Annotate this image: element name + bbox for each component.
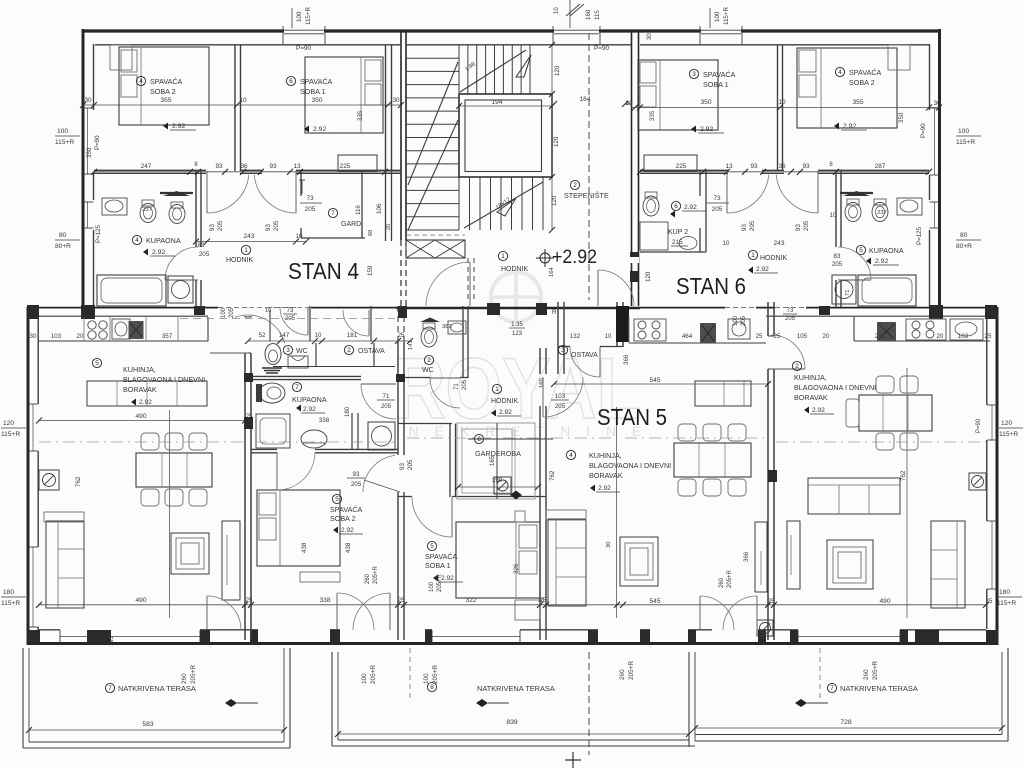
- kitchen counter STAN4: [39, 340, 208, 342]
- svg-text:5: 5: [335, 496, 339, 503]
- pillow k: [519, 525, 537, 548]
- svg-text:205+R: 205+R: [190, 665, 197, 684]
- dim row y105 left: [83, 104, 401, 106]
- svg-text:STEPENIŠTE: STEPENIŠTE: [564, 191, 609, 200]
- terrace left outer border: [22, 648, 24, 748]
- OSTAVA door arc: [368, 310, 370, 336]
- svg-text:115+R: 115+R: [1, 600, 20, 607]
- drain symbol left: [39, 470, 59, 490]
- OSTAVA2 label STAN4: [344, 345, 353, 354]
- svg-text:205: 205: [305, 206, 316, 213]
- svg-text:205+R: 205+R: [437, 573, 443, 592]
- svg-text:NATKRIVENA TERASA: NATKRIVENA TERASA: [477, 684, 555, 693]
- svg-text:243: 243: [773, 240, 784, 247]
- svg-text:147: 147: [279, 332, 290, 339]
- door arc kupaona4 mirror: [165, 247, 198, 280]
- svg-text:25: 25: [398, 333, 405, 339]
- svg-text:KUPAONA: KUPAONA: [869, 246, 904, 255]
- toilet KUP2: [643, 196, 659, 216]
- svg-text:237: 237: [142, 207, 152, 213]
- svg-text:13: 13: [293, 163, 301, 170]
- bed STAN5 SOBA2: [257, 490, 340, 566]
- svg-text:103: 103: [958, 333, 969, 340]
- svg-text:20: 20: [386, 224, 392, 230]
- door arc kupaona7: [361, 383, 396, 385]
- svg-text:KUPAONA: KUPAONA: [292, 395, 327, 404]
- svg-text:350: 350: [700, 99, 711, 106]
- svg-text:205: 205: [555, 403, 566, 410]
- section dash line across: [39, 441, 243, 443]
- watermark logo: [393, 272, 647, 439]
- svg-text:80: 80: [59, 232, 67, 239]
- svg-text:115+R: 115+R: [1, 431, 20, 438]
- svg-text:160: 160: [539, 378, 545, 388]
- bidet STAN6: [872, 203, 888, 222]
- stair bottom wall piers: [487, 303, 500, 315]
- svg-text:93: 93: [795, 224, 802, 231]
- svg-text:6: 6: [674, 203, 678, 210]
- bidet STAN4: [169, 205, 185, 224]
- dim row y171 STAN6: [640, 171, 929, 173]
- svg-text:115+R: 115+R: [997, 600, 1016, 607]
- kupaona4 label: [132, 235, 141, 244]
- hodnik5 bottom / garderoba top wall: [398, 423, 452, 425]
- svg-text:205: 205: [273, 220, 280, 231]
- svg-text:2.92: 2.92: [303, 406, 316, 413]
- coffee table STAN4: [171, 533, 209, 574]
- svg-text:205: 205: [803, 220, 810, 231]
- pillow f: [640, 86, 656, 107]
- terrace left label: [105, 683, 114, 692]
- svg-text:335: 335: [357, 110, 364, 121]
- shower head dark STAN4: [163, 191, 190, 196]
- svg-text:93: 93: [265, 224, 272, 231]
- door leaf stan6: [771, 368, 805, 370]
- sink STAN6: [950, 319, 983, 340]
- WC door arc: [307, 307, 309, 335]
- window right wall P=90 350: [934, 108, 936, 175]
- KUP2 labels: [671, 201, 680, 210]
- svg-text:SPAVAĆA: SPAVAĆA: [703, 70, 736, 79]
- door arc hodnik5: [542, 377, 544, 417]
- garderoba left wall: [449, 424, 451, 498]
- elevator shaft box: [459, 94, 552, 177]
- washing machine STAN6: [832, 275, 856, 304]
- svg-text:68: 68: [368, 230, 374, 236]
- pillow b: [121, 75, 137, 97]
- svg-text:5: 5: [430, 543, 434, 550]
- bottom exterior wall: [28, 642, 998, 645]
- section dash line mid: [407, 437, 615, 439]
- svg-text:HODNIK: HODNIK: [501, 266, 529, 273]
- svg-text:205+R: 205+R: [727, 569, 733, 588]
- window 120 right: [991, 405, 993, 440]
- hob STAN5: [634, 319, 666, 341]
- svg-text:438: 438: [301, 542, 308, 553]
- door arc bedroom2 STAN4: [206, 171, 208, 213]
- garderoba STAN4 walls: [300, 171, 302, 196]
- svg-text:7: 7: [830, 685, 834, 692]
- svg-text:73: 73: [787, 308, 794, 314]
- svg-text:180: 180: [999, 589, 1010, 596]
- WC3 sink: [288, 356, 308, 368]
- svg-text:132: 132: [570, 333, 581, 340]
- svg-text:SOBA 2: SOBA 2: [330, 514, 356, 523]
- section line vertical: [588, 652, 590, 755]
- top dim line left window: [291, 8, 293, 28]
- svg-text:7: 7: [108, 685, 112, 692]
- top wall inner line centre: [407, 44, 631, 46]
- zone line STAN6 living: [906, 368, 908, 618]
- svg-text:OSTAVA: OSTAVA: [358, 348, 385, 355]
- sofa armrest top stan5: [546, 510, 586, 520]
- svg-text:7: 7: [295, 384, 299, 391]
- svg-text:BLAGOVAONA I DNEVNI: BLAGOVAONA I DNEVNI: [123, 375, 205, 384]
- kuhinja STAN5 label: [566, 450, 575, 459]
- svg-text:225: 225: [676, 163, 687, 170]
- zone line STAN4 living: [169, 410, 171, 618]
- svg-text:25: 25: [398, 598, 405, 604]
- coffee table STAN5: [620, 537, 658, 586]
- svg-text:160: 160: [585, 9, 592, 20]
- svg-text:10: 10: [315, 333, 322, 339]
- kitchen wall inner line left: [28, 315, 208, 317]
- svg-text:P=125: P=125: [95, 224, 102, 243]
- svg-text:120: 120: [554, 65, 561, 76]
- svg-text:10: 10: [554, 7, 560, 14]
- sofa STAN5: [548, 519, 586, 606]
- svg-text:GARDEROBA: GARDEROBA: [475, 449, 521, 458]
- staircase treads left column: [406, 44, 459, 46]
- svg-text:30: 30: [647, 33, 653, 40]
- svg-text:338: 338: [319, 417, 330, 424]
- chairs STAN5: [678, 424, 696, 441]
- svg-text:205: 205: [217, 220, 224, 231]
- svg-text:193: 193: [109, 636, 115, 646]
- bed STAN6 SOBA2: [797, 48, 897, 128]
- svg-text:1,35: 1,35: [511, 322, 523, 328]
- svg-text:93: 93: [215, 163, 223, 170]
- svg-text:25: 25: [768, 599, 775, 605]
- right exterior wall lower band: [996, 307, 999, 645]
- terrace right bottom border: [695, 740, 1008, 742]
- label SOBA2 STAN6: [835, 67, 844, 76]
- dim row y341: [248, 340, 410, 342]
- svg-text:25: 25: [540, 598, 547, 604]
- dashed projection line: [409, 648, 411, 700]
- svg-text:25: 25: [986, 599, 993, 605]
- svg-text:2: 2: [795, 363, 799, 370]
- svg-text:215: 215: [672, 239, 683, 246]
- terrace middle left border: [331, 652, 333, 746]
- svg-text:13: 13: [725, 163, 733, 170]
- svg-text:SPAVAĆA: SPAVAĆA: [150, 77, 183, 86]
- +2.92 level mark: [540, 253, 550, 263]
- svg-text:71: 71: [383, 393, 390, 400]
- appliance dark STAN6: [877, 322, 896, 341]
- door arc soba1 top: [451, 497, 453, 537]
- svg-text:36: 36: [240, 163, 248, 170]
- svg-text:205: 205: [285, 316, 296, 322]
- svg-text:205: 205: [832, 261, 843, 268]
- svg-text:3: 3: [561, 347, 565, 354]
- svg-text:1: 1: [751, 252, 755, 259]
- svg-text:2.92: 2.92: [139, 399, 152, 406]
- nightstand STAN4 SOBA2: [110, 45, 132, 70]
- label SOBA1 STAN4: [286, 76, 295, 85]
- mid horizontal wall y307: [28, 307, 218, 309]
- svg-text:2: 2: [573, 182, 577, 189]
- svg-text:464: 464: [682, 333, 693, 340]
- door arc ostava3: [599, 347, 601, 377]
- svg-text:205+R: 205+R: [872, 661, 879, 680]
- svg-text:HODNIK: HODNIK: [226, 257, 254, 264]
- svg-text:2.92: 2.92: [313, 126, 326, 133]
- svg-text:120: 120: [551, 195, 558, 206]
- svg-text:20: 20: [937, 333, 944, 340]
- bed STAN4 SOBA2: [119, 47, 209, 125]
- svg-text:5: 5: [95, 360, 99, 367]
- svg-text:KUHINJA,: KUHINJA,: [794, 373, 827, 382]
- dashed door lintels mid wall: [218, 307, 249, 309]
- svg-text:1: 1: [244, 247, 248, 254]
- svg-text:SPAVAĆA: SPAVAĆA: [849, 68, 882, 77]
- svg-text:100: 100: [429, 581, 435, 592]
- svg-text:120: 120: [645, 271, 652, 282]
- nightstand STAN6 SOBA2: [888, 45, 910, 70]
- svg-text:100: 100: [714, 11, 721, 22]
- wall x401 mid: [397, 342, 399, 455]
- top wall inner line left: [95, 44, 400, 46]
- svg-text:100: 100: [296, 11, 303, 22]
- svg-text:4: 4: [139, 78, 143, 85]
- svg-text:338: 338: [319, 597, 330, 604]
- svg-text:180: 180: [345, 406, 351, 417]
- svg-text:2.92: 2.92: [172, 123, 185, 130]
- svg-text:103: 103: [555, 393, 566, 400]
- svg-text:73: 73: [713, 195, 721, 202]
- svg-text:159: 159: [367, 265, 374, 276]
- bed STAN6 SOBA1: [638, 60, 718, 130]
- coffee table STAN6: [827, 540, 873, 589]
- stepeniste label: [570, 180, 579, 189]
- svg-text:+2.92: +2.92: [552, 247, 597, 268]
- svg-text:30: 30: [392, 97, 400, 104]
- door arc soba1 stan5: [364, 480, 400, 492]
- door arcs to terraces: [336, 593, 338, 630]
- pillow d: [365, 84, 381, 105]
- svg-text:KUHINJA,: KUHINJA,: [123, 365, 156, 374]
- svg-text:120: 120: [1001, 420, 1012, 427]
- svg-text:205: 205: [462, 379, 468, 390]
- svg-text:25: 25: [246, 598, 253, 604]
- svg-text:839: 839: [506, 719, 518, 726]
- svg-text:762: 762: [75, 476, 82, 487]
- svg-text:1: 1: [495, 386, 499, 393]
- svg-text:10: 10: [830, 212, 837, 219]
- hodnik STAN4 label: [241, 245, 250, 254]
- bed STAN4 SOBA1: [305, 57, 383, 133]
- kuhinja STAN6 label: [792, 361, 801, 370]
- wall x620 stan5 ostava right: [616, 302, 618, 347]
- chairs STAN6: [876, 376, 894, 393]
- drain symbol stair bottom: [494, 477, 511, 494]
- door arc bedroom1 STAN6: [726, 171, 728, 213]
- dashed line below corridor: [180, 318, 395, 320]
- svg-text:KUPAONA: KUPAONA: [146, 236, 181, 245]
- svg-text:115+R: 115+R: [999, 431, 1018, 438]
- window 120 left: [32, 404, 34, 451]
- svg-text:260: 260: [619, 669, 626, 680]
- sofa STAN6: [808, 478, 900, 514]
- svg-text:205+R: 205+R: [370, 665, 377, 684]
- svg-text:P=90: P=90: [296, 45, 312, 52]
- svg-text:205: 205: [351, 481, 362, 488]
- WC3 toilet: [265, 344, 281, 365]
- kupaona5 label: [856, 245, 865, 254]
- staircase wall dashed below: [397, 306, 399, 342]
- svg-text:2.92: 2.92: [598, 485, 611, 492]
- terrace left right border: [283, 648, 285, 742]
- svg-text:P=90: P=90: [920, 123, 927, 138]
- wall STAN4 living / SOBA2 mid: [244, 316, 246, 640]
- KUP2 walls STAN6: [699, 171, 701, 196]
- dashed stub below niche: [467, 258, 469, 300]
- dining table STAN4: [136, 453, 212, 487]
- bathtub STAN4: [97, 275, 166, 306]
- svg-text:100: 100: [733, 315, 739, 326]
- svg-text:80+R: 80+R: [55, 243, 71, 250]
- black wall fill above ostava: [616, 306, 629, 342]
- terrace right right border: [1001, 652, 1003, 735]
- svg-text:2.92: 2.92: [152, 249, 165, 256]
- niche box with X under stairs: [406, 240, 465, 258]
- sideboard STAN4: [87, 381, 207, 406]
- label SOBA1 STAN5: [427, 541, 436, 550]
- kitchen counter STAN6: [854, 340, 990, 342]
- svg-text:73: 73: [306, 195, 314, 202]
- WC/OSTAVA walls: [309, 306, 311, 341]
- WC3 radiator fan: [262, 368, 282, 373]
- svg-text:350: 350: [898, 112, 905, 123]
- pillow g: [799, 50, 816, 72]
- svg-text:HODNIK: HODNIK: [760, 255, 788, 262]
- label SOBA2 STAN4: [136, 76, 145, 85]
- svg-text:100: 100: [361, 673, 368, 684]
- svg-text:4: 4: [135, 237, 139, 244]
- svg-text:93: 93: [741, 224, 748, 231]
- svg-text:105: 105: [797, 333, 808, 340]
- garderoba wardrobe outlines: [457, 423, 535, 499]
- svg-text:BORAVAK: BORAVAK: [589, 471, 623, 480]
- svg-text:STAN 6: STAN 6: [676, 273, 746, 299]
- svg-text:6: 6: [289, 78, 293, 85]
- svg-text:225: 225: [340, 163, 351, 170]
- dim row y107 right: [631, 107, 940, 109]
- svg-text:STAN 5: STAN 5: [597, 404, 667, 430]
- svg-text:2.92: 2.92: [812, 407, 825, 414]
- bedroom separating wall horizontal STAN6: [640, 169, 728, 171]
- window right wall P=125: [934, 202, 936, 228]
- svg-text:322: 322: [465, 597, 476, 604]
- terrace left bottom border: [23, 747, 290, 749]
- svg-text:762: 762: [900, 470, 907, 481]
- svg-text:SOBA 2: SOBA 2: [849, 78, 875, 87]
- svg-text:205: 205: [785, 316, 796, 322]
- kupaona7 washing machine: [368, 422, 395, 450]
- entry door arc STAN5 side: [597, 270, 599, 306]
- svg-text:728: 728: [840, 719, 852, 726]
- black pier wall stan5/6: [768, 470, 777, 482]
- TV cabinet STAN5: [755, 522, 767, 592]
- bottom wall piers: [28, 630, 40, 643]
- staircase left wall: [400, 31, 402, 240]
- svg-text:2: 2: [427, 357, 431, 364]
- nightstand SOBA1 STAN5 top: [515, 511, 525, 522]
- window 180 right: [991, 521, 993, 589]
- door arc kupaona5: [838, 247, 871, 280]
- washbasin STAN6: [897, 198, 922, 215]
- svg-text:164: 164: [579, 96, 590, 103]
- kupaona4 wall (left bath): [195, 171, 197, 247]
- ostava3 label: [558, 345, 567, 354]
- svg-text:2.92: 2.92: [684, 204, 697, 211]
- dim row y604: [39, 604, 986, 606]
- svg-text:366: 366: [623, 354, 630, 365]
- pillow j: [259, 518, 276, 540]
- kupaona7 shower: [256, 414, 290, 448]
- kupaona7 walls: [251, 375, 361, 377]
- door gap arc into STAN4 living: [243, 317, 253, 353]
- sink STAN5: [728, 319, 750, 339]
- svg-text:80: 80: [960, 232, 968, 239]
- door arc bedroom1 STAN4: [295, 171, 297, 213]
- WC2 STAN5 fixtures: [420, 318, 440, 323]
- svg-text:30: 30: [30, 333, 37, 340]
- svg-text:20: 20: [823, 333, 830, 340]
- stub wall left of WC: [269, 310, 271, 341]
- svg-text:583: 583: [142, 721, 154, 728]
- window in top wall right P=90: [701, 29, 741, 34]
- TV cabinet STAN4: [222, 521, 240, 600]
- svg-text:P=90: P=90: [976, 418, 982, 433]
- armchair STAN6: [931, 521, 965, 608]
- wall STAN5/STAN6 living: [767, 302, 769, 336]
- svg-text:6: 6: [477, 436, 481, 443]
- hodnik5 label: [492, 384, 501, 393]
- svg-text:115+R: 115+R: [956, 139, 975, 146]
- pillow i: [259, 493, 276, 515]
- svg-text:205: 205: [749, 220, 756, 231]
- sink KUP2: [679, 237, 697, 250]
- hob STAN4: [88, 321, 96, 329]
- svg-text:80+R: 80+R: [956, 243, 972, 250]
- hodnik stair label: [498, 251, 507, 260]
- kitchen counter STAN5: [629, 342, 766, 344]
- svg-text:350: 350: [86, 147, 93, 158]
- hob STAN6: [906, 319, 946, 340]
- right stair wall door piers: [630, 252, 639, 263]
- section mark bottom: [565, 752, 581, 768]
- svg-text:10: 10: [723, 240, 730, 247]
- svg-text:30: 30: [933, 100, 941, 107]
- pillow e: [640, 62, 656, 83]
- left exterior wall lower band: [27, 307, 30, 645]
- svg-text:106: 106: [376, 203, 383, 214]
- svg-text:10: 10: [605, 334, 612, 340]
- svg-text:GARD.: GARD.: [341, 221, 363, 228]
- window in top wall left P=90: [284, 29, 324, 34]
